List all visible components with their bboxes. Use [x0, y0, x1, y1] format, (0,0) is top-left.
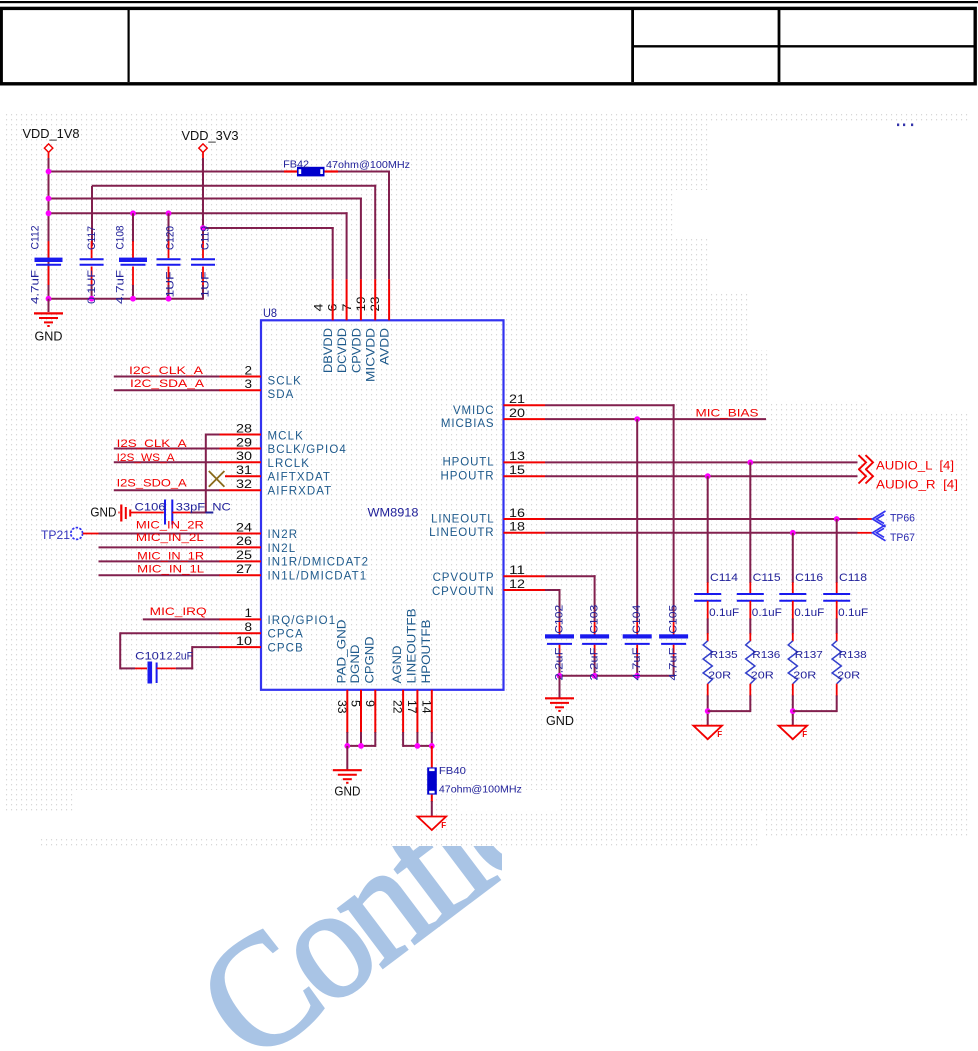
svg-text:GND: GND	[334, 785, 360, 799]
svg-text:TP21: TP21	[41, 530, 70, 542]
svg-text:IN1R/DMICDAT2: IN1R/DMICDAT2	[268, 557, 370, 569]
svg-text:MICVDD: MICVDD	[366, 328, 378, 382]
svg-text:17: 17	[405, 700, 417, 714]
svg-text:C120: C120	[165, 226, 177, 250]
svg-text:C103: C103	[589, 605, 601, 634]
svg-text:IRQ/GPIO1: IRQ/GPIO1	[268, 615, 337, 627]
svg-text:C105: C105	[668, 605, 680, 634]
svg-text:LRCLK: LRCLK	[268, 458, 311, 470]
svg-text:C101: C101	[135, 651, 166, 663]
svg-text:R138: R138	[839, 649, 867, 661]
svg-text:WM8918: WM8918	[368, 508, 419, 520]
svg-text:C119: C119	[199, 226, 211, 250]
svg-text:0.1uF: 0.1uF	[709, 607, 739, 619]
svg-text:I2S_SDO_A: I2S_SDO_A	[117, 478, 188, 490]
svg-text:R137: R137	[795, 649, 823, 661]
svg-text:AVDD: AVDD	[380, 328, 392, 365]
svg-text:LINEOUTR: LINEOUTR	[429, 527, 494, 539]
svg-text:C108: C108	[115, 226, 127, 250]
svg-text:1UF: 1UF	[165, 271, 177, 297]
svg-text:AIFTXDAT: AIFTXDAT	[268, 472, 332, 484]
svg-text:IN2L: IN2L	[268, 543, 297, 555]
svg-text:DGND: DGND	[350, 645, 362, 684]
svg-text:R135: R135	[710, 649, 738, 661]
svg-text:F: F	[802, 730, 807, 739]
svg-text:MICBIAS: MICBIAS	[441, 418, 495, 430]
svg-text:VDD_1V8: VDD_1V8	[23, 127, 80, 141]
svg-text:IN2R: IN2R	[268, 529, 299, 541]
svg-text:4: 4	[314, 303, 326, 312]
svg-text:I2S_WS_A: I2S_WS_A	[117, 452, 176, 464]
svg-text:MCLK: MCLK	[268, 430, 304, 442]
svg-text:MIC_IN_1L: MIC_IN_1L	[137, 563, 204, 575]
svg-text:20R: 20R	[793, 670, 816, 682]
svg-text:IN1L/DMICDAT1: IN1L/DMICDAT1	[268, 570, 368, 582]
svg-text:CPVOUTP: CPVOUTP	[433, 572, 495, 584]
svg-text:U8: U8	[263, 306, 277, 320]
svg-text:0.1uF: 0.1uF	[752, 607, 782, 619]
svg-text:LINEOUTL: LINEOUTL	[431, 513, 494, 525]
svg-text:BCLK/GPIO4: BCLK/GPIO4	[268, 444, 347, 456]
svg-text:C118: C118	[839, 572, 867, 584]
svg-text:MIC_BIAS: MIC_BIAS	[696, 408, 759, 420]
svg-text:22: 22	[391, 700, 403, 714]
svg-text:14: 14	[419, 700, 431, 714]
svg-text:9: 9	[363, 700, 375, 707]
svg-text:CPVOUTN: CPVOUTN	[432, 586, 495, 598]
svg-text:GND: GND	[35, 330, 63, 344]
svg-text:MIC_IRQ: MIC_IRQ	[150, 606, 208, 618]
svg-text:47ohm@100MHz: 47ohm@100MHz	[326, 159, 410, 171]
svg-text:PAD_GND: PAD_GND	[336, 620, 348, 684]
svg-text:TP67: TP67	[890, 532, 915, 544]
svg-text:19: 19	[356, 297, 368, 312]
svg-text:HPOUTFB: HPOUTFB	[421, 619, 433, 683]
svg-text:0.1uF: 0.1uF	[838, 607, 868, 619]
svg-text:C114: C114	[710, 572, 738, 584]
svg-text:C102: C102	[554, 605, 566, 634]
svg-text:2.2uF: 2.2uF	[554, 647, 566, 680]
svg-text:MIC_IN_1R: MIC_IN_1R	[137, 551, 204, 563]
svg-text:33pF_NC: 33pF_NC	[176, 502, 231, 514]
svg-text:AGND: AGND	[392, 646, 404, 684]
svg-text:5: 5	[349, 700, 361, 707]
svg-text:0.1UF: 0.1UF	[86, 270, 98, 304]
svg-text:4.7uF: 4.7uF	[115, 270, 127, 304]
svg-text:LINEOUTFB: LINEOUTFB	[406, 608, 418, 683]
svg-text:DBVDD: DBVDD	[323, 328, 335, 373]
svg-text:7: 7	[342, 304, 354, 312]
svg-text:CPGND: CPGND	[364, 637, 376, 684]
svg-text:AIFRXDAT: AIFRXDAT	[268, 486, 333, 498]
svg-text:FB40: FB40	[439, 765, 466, 777]
svg-text:2.2uF: 2.2uF	[589, 647, 601, 680]
svg-text:C106: C106	[135, 502, 166, 514]
svg-text:MIC_IN_2L: MIC_IN_2L	[136, 532, 204, 544]
svg-text:DCVDD: DCVDD	[337, 328, 349, 373]
svg-text:4.7uF: 4.7uF	[668, 647, 680, 680]
svg-text:HPOUTL: HPOUTL	[442, 457, 494, 469]
svg-text:CPCA: CPCA	[268, 629, 304, 641]
svg-text:I2C_SDA_A: I2C_SDA_A	[130, 378, 205, 390]
svg-text:GND: GND	[546, 714, 574, 728]
svg-text:F: F	[717, 730, 722, 739]
svg-text:F: F	[441, 821, 446, 830]
svg-text:MIC_IN_2R: MIC_IN_2R	[136, 520, 204, 532]
svg-text:20R: 20R	[837, 670, 860, 682]
svg-text:AUDIO_R [4]: AUDIO_R [4]	[876, 479, 958, 491]
svg-text:47ohm@100MHz: 47ohm@100MHz	[439, 783, 522, 795]
svg-text:CPCB: CPCB	[268, 642, 304, 654]
svg-text:VDD_3V3: VDD_3V3	[182, 129, 239, 143]
svg-text:CPVDD: CPVDD	[351, 328, 363, 373]
svg-text:TP66: TP66	[890, 513, 915, 525]
svg-text:4.7uF: 4.7uF	[30, 270, 42, 304]
svg-text:1UF: 1UF	[199, 271, 211, 297]
svg-text:AUDIO_L [4]: AUDIO_L [4]	[876, 461, 954, 473]
svg-text:C115: C115	[753, 572, 781, 584]
svg-text:VMIDC: VMIDC	[453, 405, 495, 417]
svg-text:R136: R136	[752, 649, 780, 661]
svg-text:20R: 20R	[708, 670, 731, 682]
svg-text:SDA: SDA	[268, 389, 295, 401]
svg-text:4.7uF: 4.7uF	[631, 647, 643, 680]
svg-text:C104: C104	[631, 605, 643, 634]
svg-text:0.1uF: 0.1uF	[794, 607, 824, 619]
svg-text:20R: 20R	[751, 670, 774, 682]
svg-text:FB42: FB42	[283, 158, 309, 170]
svg-text:C112: C112	[30, 226, 42, 250]
svg-text:HPOUTR: HPOUTR	[441, 470, 495, 482]
svg-text:C117: C117	[86, 226, 98, 250]
svg-text:C116: C116	[795, 572, 823, 584]
svg-text:SCLK: SCLK	[268, 376, 302, 388]
svg-text:I2C_CLK_A: I2C_CLK_A	[129, 365, 204, 377]
svg-text:GND: GND	[90, 506, 116, 520]
svg-text:33: 33	[335, 700, 347, 714]
svg-text:2.2uF: 2.2uF	[167, 651, 193, 663]
svg-text:I2S_CLK_A: I2S_CLK_A	[117, 438, 188, 450]
